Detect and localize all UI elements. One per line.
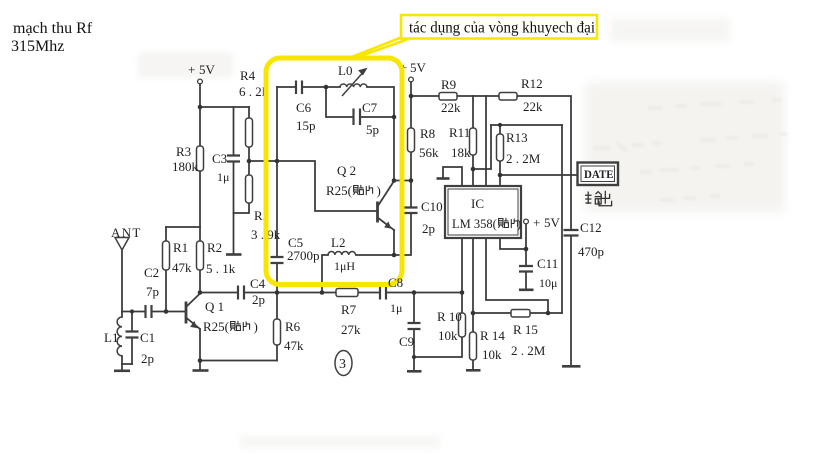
wire: R5 bottom jog to ground line bbox=[234, 203, 250, 213]
wire: C7 branch left side bbox=[326, 87, 354, 117]
svg-text:): ) bbox=[517, 217, 521, 231]
wire: Q1 emitter to R6 bottom run bbox=[200, 360, 277, 362]
svg-text:R4: R4 bbox=[240, 68, 256, 83]
wire: ground stub below L1/C1 bbox=[121, 364, 123, 371]
svg-text:C3: C3 bbox=[212, 151, 227, 166]
junction: Q2 emitter / L2 node bbox=[392, 253, 397, 258]
wire: Q2 collector diagonal bbox=[378, 181, 395, 207]
wire: IC +5V pin drop to C11 bbox=[525, 224, 527, 266]
wire: R2 bottom to Q1 collector node bbox=[199, 270, 201, 293]
wire: C5 bottom lead to AC rail bbox=[276, 263, 278, 293]
wire: node down to R3 top bbox=[199, 107, 201, 146]
op-amp IC LM358 box inner line bbox=[448, 189, 518, 235]
junction: feedback drop on R15 run bbox=[546, 311, 551, 316]
antenna ANT symbol bbox=[115, 238, 129, 251]
+5V mid terminal circle bbox=[409, 77, 414, 82]
wire: R15 left run from R14 column bbox=[473, 312, 511, 314]
scan noise streak bottom center bbox=[240, 436, 440, 448]
svg-text:C1: C1 bbox=[140, 330, 155, 345]
svg-text:315Mhz: 315Mhz bbox=[11, 38, 64, 55]
svg-text:C7: C7 bbox=[362, 100, 378, 115]
wire: DATE output run bbox=[500, 174, 578, 176]
wire: Q2 collector node to R8 bottom bbox=[394, 180, 411, 182]
capacitor C11 plates bbox=[519, 266, 533, 272]
ground bar under R14 bbox=[466, 369, 481, 372]
wire: IC pin to R10 junction bbox=[461, 238, 463, 313]
wire: emitter node to C10 bottom leg bbox=[394, 213, 411, 255]
wire: R2 top lead bbox=[199, 227, 201, 241]
junction: Q2 collector node bbox=[392, 178, 397, 183]
svg-text:mạch thu Rf: mạch thu Rf bbox=[13, 20, 93, 37]
L0 tuning arrow shaft bbox=[342, 74, 362, 97]
junction: C5/R6 node on AC rail bbox=[275, 290, 280, 295]
wire: C9 lower lead bbox=[413, 329, 415, 357]
capacitor C9 plates bbox=[408, 323, 421, 329]
svg-text:10k: 10k bbox=[438, 328, 458, 343]
wire: R13 top lead bbox=[499, 125, 501, 134]
inductor L2 bbox=[328, 252, 356, 255]
wire: tank bottom to Q2 collector node bbox=[393, 117, 395, 181]
highlight rounded box around amplifier loop bbox=[266, 58, 402, 285]
svg-text:2p: 2p bbox=[141, 351, 154, 366]
resistor R5 body bbox=[246, 175, 253, 203]
svg-text:5p: 5p bbox=[366, 122, 379, 137]
svg-text:C2: C2 bbox=[144, 265, 159, 280]
svg-text:R9: R9 bbox=[441, 77, 456, 92]
svg-text:2p: 2p bbox=[252, 292, 265, 307]
capacitor C2 plates bbox=[146, 305, 152, 318]
wire: Q1 emitter diagonal bbox=[186, 318, 200, 330]
wire: C1 bottom lead bbox=[131, 338, 133, 364]
wire: C11 bottom lead bbox=[525, 272, 527, 289]
wire: ground stub below Q1 bbox=[199, 361, 201, 370]
capacitor C10 plates bbox=[405, 208, 418, 214]
svg-text:L2: L2 bbox=[331, 235, 345, 250]
wire: plain rail drop to IC pin bbox=[485, 96, 487, 186]
svg-text:18k: 18k bbox=[451, 145, 471, 160]
capacitor C4 plates bbox=[238, 286, 244, 300]
svg-text:R6: R6 bbox=[285, 319, 301, 334]
svg-text:R2: R2 bbox=[207, 240, 222, 255]
wire: C3 upper lead from rail bbox=[233, 107, 235, 155]
scan noise patch right margin bbox=[585, 82, 785, 212]
svg-text:R1: R1 bbox=[173, 240, 188, 255]
annotation label box bbox=[401, 15, 597, 39]
svg-text:R12: R12 bbox=[521, 76, 543, 91]
resistor R12 body bbox=[499, 93, 517, 101]
ground bar under C3/R5 bbox=[226, 253, 242, 256]
capacitor C3 plates bbox=[227, 156, 240, 162]
junction: R11 bottom feedback node bbox=[471, 167, 476, 172]
resistor R7 body bbox=[336, 289, 358, 297]
junction: R10 / IC pin node bbox=[460, 290, 465, 295]
resistor R11 body bbox=[470, 128, 477, 155]
svg-text:22k: 22k bbox=[523, 99, 543, 114]
wire: horizontal joint R1-R2 tops bbox=[166, 226, 200, 228]
wire: C3 lower lead down to ground bbox=[233, 162, 235, 254]
DATE output box inner line bbox=[581, 166, 615, 182]
svg-text:470p: 470p bbox=[578, 244, 604, 259]
svg-text:2700p: 2700p bbox=[287, 248, 320, 263]
ground bar at IC grounded input bbox=[437, 177, 450, 180]
svg-text:+: + bbox=[188, 62, 195, 77]
scan noise patch top-left of rails bbox=[138, 52, 233, 78]
capacitor C7 plates bbox=[354, 109, 361, 126]
svg-text:L0: L0 bbox=[338, 63, 352, 78]
svg-text:R13: R13 bbox=[506, 130, 528, 145]
wire: C10 top leg from collector node bbox=[410, 181, 412, 208]
wire: IC pin4 down and over to +5V column bbox=[500, 238, 526, 249]
junction: C9 foot node bbox=[412, 355, 416, 359]
resistor R9 body bbox=[439, 93, 457, 101]
svg-text:3: 3 bbox=[339, 357, 346, 372]
wire: node to C6 left plate bbox=[277, 86, 296, 88]
svg-text:10μ: 10μ bbox=[539, 276, 557, 290]
wire: feedback left drop to R11 node bbox=[473, 125, 491, 169]
+5V left terminal circle bbox=[198, 79, 203, 84]
wire: R9 right to R12 left bbox=[457, 95, 499, 97]
svg-text:47k: 47k bbox=[284, 338, 304, 353]
wire: +5V mid drop bbox=[410, 82, 412, 96]
ground bar under C9 bbox=[407, 370, 422, 373]
IC +5V pin circle bbox=[524, 219, 529, 224]
svg-text:2p: 2p bbox=[422, 221, 435, 236]
svg-text:R25(: R25( bbox=[203, 319, 229, 334]
svg-text:R11: R11 bbox=[449, 125, 470, 140]
wire: C4 to C5 node bbox=[245, 292, 323, 294]
junction: R13 bottom / DATE node bbox=[498, 173, 503, 178]
resistor R14 body bbox=[470, 332, 477, 360]
wire: C5 top lead from base node bbox=[276, 161, 278, 257]
wire: right feedback column down to R15 bbox=[561, 125, 563, 313]
ground bar under C11 bbox=[519, 288, 534, 291]
svg-text:R3: R3 bbox=[176, 144, 191, 159]
resistor R15 body bbox=[511, 310, 530, 318]
svg-text:2 . 2M: 2 . 2M bbox=[511, 343, 546, 358]
svg-text:27k: 27k bbox=[341, 322, 361, 337]
svg-text:): ) bbox=[254, 319, 258, 334]
wire: L2 right lead to emitter node bbox=[356, 254, 394, 256]
svg-text:+: + bbox=[533, 215, 540, 230]
junction: base node C6/C5 riser bbox=[275, 159, 280, 164]
wire: R1 top to rail joint bbox=[165, 227, 167, 241]
resistor R2 body bbox=[197, 241, 204, 270]
junction: C9 tap node bbox=[412, 290, 417, 295]
transistor Q1 emitter arrowhead bbox=[191, 322, 197, 328]
svg-text:1μH: 1μH bbox=[334, 259, 355, 273]
L0 tuning arrowhead bbox=[359, 69, 367, 75]
DATE output box outer bbox=[578, 163, 619, 186]
capacitor C1 plates bbox=[126, 332, 139, 338]
wire: C8 right plate to C9/R10 junctions bbox=[387, 292, 463, 294]
svg-text:R8: R8 bbox=[420, 126, 435, 141]
wire: R10 bottom over to C9 foot bbox=[414, 337, 462, 357]
junction: +5V left / R4 rail bbox=[198, 105, 203, 110]
svg-text:5V: 5V bbox=[410, 60, 427, 75]
svg-text:ANT: ANT bbox=[111, 225, 142, 240]
wire: L1 bottom lead to ground join bbox=[122, 356, 132, 364]
glyph 出 (output) bbox=[599, 191, 612, 206]
capacitor C12 plates bbox=[564, 230, 579, 236]
wire: L2 node to R7 left bbox=[322, 292, 336, 294]
wire: input node to C2 left plate bbox=[122, 311, 145, 313]
wire: R14 bottom to ground bbox=[472, 360, 474, 370]
wire: AC rail collector node to C4 bbox=[200, 292, 238, 294]
resistor R13 body bbox=[497, 134, 504, 161]
callout upper line bbox=[353, 38, 401, 57]
svg-text:C8: C8 bbox=[388, 275, 403, 290]
callout lower line bbox=[355, 40, 407, 59]
wire: L2 left lead riser bbox=[322, 255, 328, 293]
wire: L1 top lead bbox=[121, 312, 123, 318]
svg-text:LM 358(: LM 358( bbox=[452, 217, 497, 231]
junction: R1 bottom on Q1 base wire bbox=[164, 309, 169, 314]
wire: L0 right lead and tank right side down bbox=[367, 87, 394, 117]
svg-text:47k: 47k bbox=[172, 260, 192, 275]
wire: R11 bottom to feedback dot and IC pin bbox=[472, 155, 474, 186]
junction: R4/R5/C3 mid node bbox=[247, 159, 252, 164]
svg-text:tác dụng của vòng khuyech đại: tác dụng của vòng khuyech đại bbox=[409, 20, 596, 37]
wire: Q2 emitter drop to L2 node bbox=[393, 230, 395, 255]
svg-text:180k: 180k bbox=[172, 159, 199, 174]
svg-text:C11: C11 bbox=[537, 256, 558, 271]
svg-text:IC: IC bbox=[471, 196, 484, 211]
resistor R4 body bbox=[246, 118, 253, 147]
wire: R6 bottom lead bbox=[276, 345, 278, 361]
wire: Q1 emitter drop bbox=[199, 329, 201, 361]
svg-text:5V: 5V bbox=[544, 215, 561, 230]
wire: +5V left drop to node bbox=[199, 84, 201, 107]
op-amp IC LM358 box outer bbox=[445, 186, 521, 238]
svg-text:R 15: R 15 bbox=[513, 322, 538, 337]
inductor L0 bbox=[340, 84, 367, 87]
wire: R12 right to C12 column corner bbox=[517, 96, 571, 230]
junction: Q1 collector / R2 node bbox=[198, 290, 203, 295]
svg-text:R25(: R25( bbox=[326, 183, 352, 198]
svg-text:C6: C6 bbox=[296, 100, 312, 115]
junction: C6/C7 tank left bbox=[324, 85, 329, 90]
svg-text:5 . 1k: 5 . 1k bbox=[206, 261, 236, 276]
wire: R1 bottom to base node bbox=[165, 270, 167, 312]
resistor R6 body bbox=[274, 319, 281, 345]
wire: R6 top lead bbox=[276, 293, 278, 320]
svg-text:R7: R7 bbox=[341, 302, 357, 317]
svg-text:Q 1: Q 1 bbox=[205, 299, 224, 314]
resistor R1 body bbox=[163, 241, 170, 270]
svg-text:1μ: 1μ bbox=[217, 170, 229, 184]
junction: R14 / R15 node bbox=[471, 311, 476, 316]
svg-text:R 14: R 14 bbox=[480, 328, 505, 343]
wire: R7 right to C8 left plate bbox=[358, 292, 380, 294]
resistor R10 body bbox=[459, 313, 466, 337]
wire: IC feedback pin down-over-down to R15 right bbox=[486, 238, 548, 313]
svg-text:C10: C10 bbox=[421, 199, 443, 214]
wire: IC pin to R14 junction bbox=[472, 238, 474, 332]
svg-text:15p: 15p bbox=[296, 118, 316, 133]
resistor R8 body bbox=[408, 128, 415, 152]
wire: feedback top run R13 top to right column bbox=[491, 124, 562, 126]
svg-text:L1: L1 bbox=[104, 330, 118, 345]
svg-text:Q 2: Q 2 bbox=[337, 163, 356, 178]
wire: C1 top lead bbox=[131, 312, 133, 332]
ground bar under L1/C1 bbox=[114, 369, 130, 372]
transistor Q2 emitter arrowhead bbox=[385, 222, 391, 228]
transistor Q2 base bar bbox=[376, 202, 379, 223]
capacitor C6 plates bbox=[296, 81, 302, 95]
svg-text:5V: 5V bbox=[199, 62, 216, 77]
wire: C2 right plate to Q1 base bbox=[152, 311, 187, 313]
wire: IC grounded input stub bbox=[443, 167, 462, 186]
junction: C7 right on tank column bbox=[392, 115, 397, 120]
capacitor C8 plates bbox=[380, 286, 386, 300]
junction: Q1 emitter / R6 return bbox=[198, 358, 203, 363]
svg-text:C4: C4 bbox=[250, 276, 266, 291]
wire: +5V rail to R4 top corner bbox=[200, 106, 249, 108]
circled 3 marker bbox=[335, 351, 352, 376]
junction: R13 top on feedback run bbox=[498, 123, 502, 127]
wire: C6 right plate to tank node bbox=[303, 86, 341, 88]
ground bar under C12 column bbox=[562, 365, 581, 368]
junction: C1 tap on input wire bbox=[130, 309, 134, 313]
svg-text:C12: C12 bbox=[580, 220, 602, 235]
svg-text:R 10: R 10 bbox=[437, 309, 462, 324]
wire: R15 right run to feedback column bbox=[530, 312, 562, 314]
svg-text:56k: 56k bbox=[419, 145, 439, 160]
scan noise ghost marks right margin bbox=[593, 100, 787, 200]
scan noise patch upper annotation right bbox=[610, 18, 730, 42]
junction: +5V mid / R9 bbox=[409, 94, 414, 99]
transistor Q1 base bar bbox=[185, 302, 188, 324]
wire: ANT lead down to input node bbox=[121, 250, 123, 312]
wire: R13 bottom to IC pin bbox=[499, 161, 501, 186]
wire: C12 bottom lead to ground bbox=[570, 236, 572, 366]
svg-text:DATE: DATE bbox=[584, 167, 614, 181]
inductor L1 bbox=[117, 317, 122, 356]
wire: R8 bottom lead bbox=[410, 152, 412, 181]
wire: +5V node down to R8 top bbox=[410, 96, 412, 128]
wire: C9 foot to ground bbox=[413, 357, 415, 371]
glyph 输 (output) bbox=[585, 192, 602, 205]
resistor R3 body bbox=[197, 146, 204, 171]
svg-text:1μ: 1μ bbox=[390, 301, 402, 315]
wire: C7 right plate to tank right bbox=[361, 116, 395, 118]
svg-text:C9: C9 bbox=[399, 334, 414, 349]
svg-text:2 . 2M: 2 . 2M bbox=[506, 151, 541, 166]
wire: C9 top leg bbox=[413, 293, 415, 324]
wire: C6 branch riser bbox=[276, 87, 278, 161]
junction: L2 left node on AC rail bbox=[320, 290, 325, 295]
wire: R11 top lead from rail bbox=[472, 96, 474, 128]
svg-text:7p: 7p bbox=[146, 284, 159, 299]
junction: R8 bottom / C10 top bbox=[409, 178, 414, 183]
junction: IC supply / C11 node bbox=[524, 247, 529, 252]
wire: R4 top lead bbox=[248, 107, 250, 118]
svg-text:22k: 22k bbox=[441, 100, 461, 115]
wire: R3 bottom to R1/R2 rail bbox=[199, 171, 201, 227]
wire: +5V node to R9 left bbox=[411, 95, 439, 97]
wire: R4 bottom to mid node bbox=[248, 147, 250, 161]
svg-text:10k: 10k bbox=[482, 347, 502, 362]
wire: R5 top lead bbox=[248, 161, 250, 175]
svg-text:): ) bbox=[377, 183, 381, 198]
wire: Q1 collector diagonal bbox=[186, 293, 201, 307]
capacitor C5 plates bbox=[271, 257, 284, 263]
wire: mid node to Q2 base Z-step bbox=[249, 161, 377, 211]
ground bar under Q1 emitter bbox=[193, 369, 209, 372]
wire: Q2 emitter diagonal bbox=[378, 218, 395, 231]
